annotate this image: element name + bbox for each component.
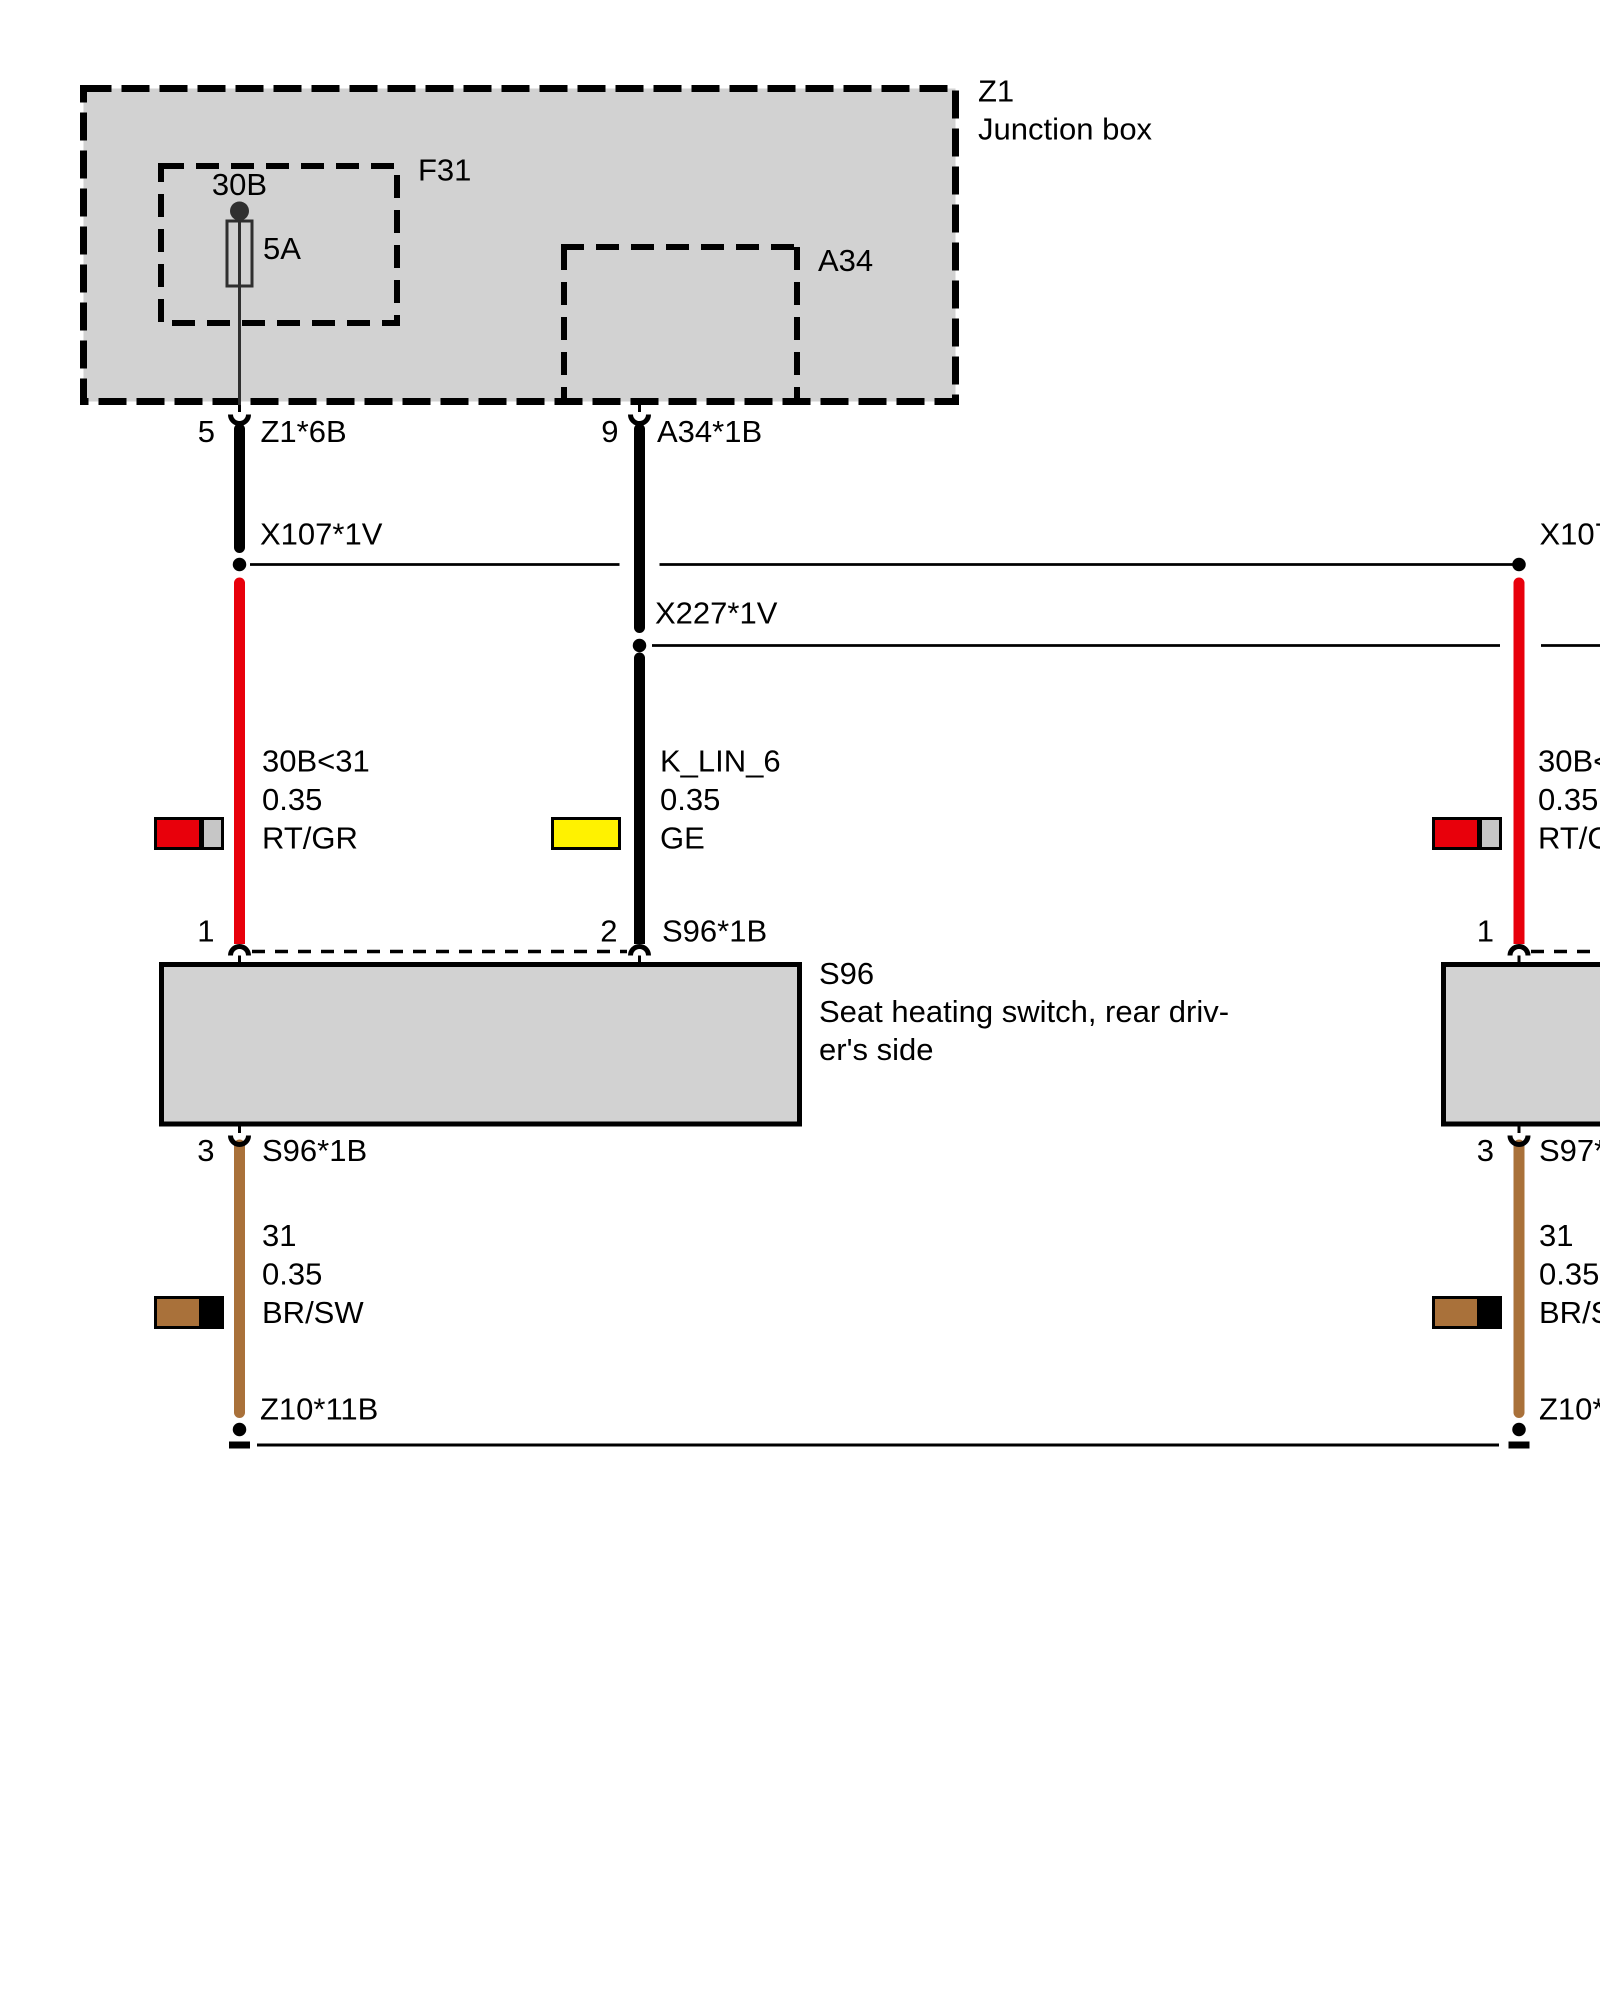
junction box Z1 [84, 89, 956, 402]
node Z10*11B left [229, 1392, 378, 1446]
wire X227*1V horizontal [652, 644, 1600, 647]
svg-text:A34*1B: A34*1B [657, 414, 762, 449]
pin 1 connector S97 [1510, 947, 1528, 963]
wire red 30B<31 right [1514, 583, 1525, 944]
svg-text:K_LIN_6: K_LIN_6 [660, 744, 781, 779]
wire X107*1V horizontal [250, 563, 1513, 566]
label wire 30B<31 0.35 RT/GR left [262, 744, 370, 856]
svg-text:0.35: 0.35 [262, 1257, 322, 1292]
label wire 31 0.35 BR/SW left [262, 1218, 364, 1330]
fuse F31 5A [227, 221, 301, 286]
svg-text:X227*1V: X227*1V [655, 596, 778, 631]
color swatch RT/GR left [154, 817, 224, 850]
svg-text:9: 9 [601, 414, 618, 449]
label A34 [818, 243, 873, 278]
svg-text:S96: S96 [819, 956, 874, 991]
svg-text:RT/GR: RT/GR [1538, 821, 1600, 856]
svg-text:3: 3 [1477, 1133, 1494, 1168]
wire red 30B<31 left [234, 583, 245, 944]
color swatch BR/SW left [154, 1296, 224, 1329]
svg-text:RT/GR: RT/GR [262, 821, 358, 856]
fuse box F31 [161, 166, 397, 323]
label wire 30B<31 0.35 RT/GR right [1538, 744, 1600, 856]
svg-text:BR/SW: BR/SW [1539, 1295, 1600, 1330]
pin 3 connector S96*1B [197, 1126, 367, 1168]
svg-text:A34: A34 [818, 243, 873, 278]
wire through fuse [238, 211, 241, 405]
wire brown 31 right [1514, 1145, 1525, 1413]
svg-text:er's side: er's side [819, 1032, 933, 1067]
color swatch GE [551, 817, 621, 850]
node Z10*11B right [1509, 1392, 1600, 1446]
pin 1 connector [231, 947, 249, 963]
svg-text:S96*1B: S96*1B [662, 914, 767, 949]
box A34 [561, 247, 800, 405]
svg-text:Seat heating switch, rear driv: Seat heating switch, rear driv- [819, 994, 1229, 1029]
svg-text:BR/SW: BR/SW [262, 1295, 364, 1330]
wire brown 31 left [234, 1145, 245, 1413]
svg-text:Z10*11B: Z10*11B [1539, 1392, 1600, 1427]
svg-text:0.35: 0.35 [660, 782, 720, 817]
svg-text:S96*1B: S96*1B [262, 1133, 367, 1168]
svg-text:Z1: Z1 [978, 74, 1014, 109]
svg-text:S97*1B: S97*1B [1539, 1133, 1600, 1168]
label S96 Seat heating switch [819, 956, 1229, 1067]
color swatch RT/GR right [1432, 817, 1502, 850]
node X107*1V left [233, 517, 383, 572]
pin 2 connector [631, 947, 649, 963]
switch S97 box [1444, 965, 1600, 1125]
wire ground rail Z10 [257, 1444, 1499, 1447]
svg-text:5: 5 [198, 414, 215, 449]
switch S96 box [162, 965, 800, 1125]
svg-text:Junction box: Junction box [978, 112, 1153, 147]
color swatch BR/SW right [1432, 1296, 1502, 1329]
svg-text:X107*1V: X107*1V [1540, 517, 1600, 552]
node X107*1V right [1512, 517, 1600, 572]
wire pin9 black lower K_LIN_6 [634, 658, 645, 944]
label F31 [418, 153, 471, 188]
svg-text:30B<31: 30B<31 [1538, 744, 1600, 779]
svg-text:1: 1 [1477, 914, 1494, 949]
svg-text:0.35: 0.35 [1539, 1257, 1599, 1292]
pin 3 connector S97*1B [1477, 1126, 1600, 1168]
wire pin5 black [234, 429, 245, 548]
label wire 31 0.35 BR/SW right [1539, 1218, 1600, 1330]
svg-text:0.35: 0.35 [1538, 782, 1598, 817]
svg-text:30B: 30B [212, 167, 267, 202]
svg-text:31: 31 [262, 1218, 296, 1253]
svg-text:3: 3 [197, 1133, 214, 1168]
svg-text:31: 31 [1539, 1218, 1573, 1253]
svg-text:2: 2 [600, 914, 617, 949]
svg-text:GE: GE [660, 821, 705, 856]
svg-text:Z10*11B: Z10*11B [260, 1392, 378, 1427]
svg-text:5A: 5A [263, 231, 301, 266]
svg-text:1: 1 [197, 914, 214, 949]
label Z1 Junction box [978, 74, 1153, 147]
svg-text:F31: F31 [418, 153, 471, 188]
pin 9 connector A34*1B [601, 405, 762, 449]
wire pin9 black upper [634, 429, 645, 628]
node X227*1V [633, 596, 778, 653]
svg-text:X107*1V: X107*1V [260, 517, 383, 552]
pin 5 connector Z1*6B [198, 405, 347, 449]
svg-text:Z1*6B: Z1*6B [261, 414, 347, 449]
label wire K_LIN_6 0.35 GE [660, 744, 781, 856]
svg-text:0.35: 0.35 [262, 782, 322, 817]
connector S97*1B top row [1477, 914, 1600, 952]
svg-text:30B<31: 30B<31 [262, 744, 370, 779]
node 30B [212, 167, 267, 221]
connector S96*1B top row [197, 914, 767, 952]
